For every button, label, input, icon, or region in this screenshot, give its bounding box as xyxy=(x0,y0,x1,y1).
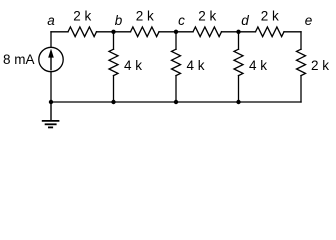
wire top rail segment a-R xyxy=(51,31,68,33)
wire top rail segment R-b xyxy=(97,31,114,33)
junction dot at (51,102) xyxy=(49,100,53,104)
wire current source to bottom rail xyxy=(50,72,52,102)
svg-text:2 k: 2 k xyxy=(261,8,279,23)
junction dot at (114,102) xyxy=(111,100,115,104)
svg-text:2 k: 2 k xyxy=(198,8,216,23)
wire resistor to bottom rail at c xyxy=(175,76,177,102)
wire resistor to bottom rail at b xyxy=(113,76,115,102)
wire bottom rail xyxy=(51,101,301,103)
resistor 2 k (shunt at node e) xyxy=(297,49,306,75)
resistor 2 k (series a-b) xyxy=(68,27,97,37)
svg-text:2 k: 2 k xyxy=(311,58,329,73)
wire top rail segment R-e xyxy=(284,31,301,33)
svg-text:4 k: 4 k xyxy=(249,58,267,73)
junction dot at (238,32) xyxy=(236,30,240,34)
svg-text:4 k: 4 k xyxy=(124,58,142,73)
svg-text:b: b xyxy=(115,13,123,28)
svg-text:4 k: 4 k xyxy=(187,58,205,73)
resistor 4 k (shunt at node d) xyxy=(234,49,243,75)
ground xyxy=(42,102,60,127)
svg-text:c: c xyxy=(178,13,185,28)
wire top rail segment R-d xyxy=(222,31,239,33)
wire top rail segment c-R xyxy=(176,31,193,33)
junction dot at (176,102) xyxy=(174,100,178,104)
wire resistor to bottom rail at d xyxy=(238,76,240,102)
wire top rail segment b-R xyxy=(114,31,131,33)
junction dot at (238,102) xyxy=(236,100,240,104)
wire node d down to resistor xyxy=(238,32,240,49)
svg-text:d: d xyxy=(241,13,249,28)
current source arrow xyxy=(48,49,54,71)
junction dot at (114,32) xyxy=(111,30,115,34)
wire resistor to bottom rail at e xyxy=(300,76,302,102)
resistor 2 k (series d-e) xyxy=(256,27,285,37)
wire node a down to current source xyxy=(50,32,52,48)
wire top rail segment d-R xyxy=(239,31,256,33)
resistor 2 k (series b-c) xyxy=(131,27,160,37)
junction dot at (176,32) xyxy=(174,30,178,34)
svg-text:8 mA: 8 mA xyxy=(3,52,35,67)
wire top rail segment R-c xyxy=(159,31,176,33)
wire node e down to resistor xyxy=(300,32,302,49)
resistor 4 k (shunt at node b) xyxy=(109,49,118,75)
current source 8 mA circle xyxy=(39,47,63,71)
resistor 2 k (series c-d) xyxy=(193,27,222,37)
svg-text:2 k: 2 k xyxy=(136,8,154,23)
svg-text:e: e xyxy=(305,13,313,28)
wire node c down to resistor xyxy=(175,32,177,49)
svg-text:2 k: 2 k xyxy=(73,8,91,23)
wire node b down to resistor xyxy=(113,32,115,49)
resistor 4 k (shunt at node c) xyxy=(172,49,181,75)
svg-text:a: a xyxy=(47,13,55,28)
